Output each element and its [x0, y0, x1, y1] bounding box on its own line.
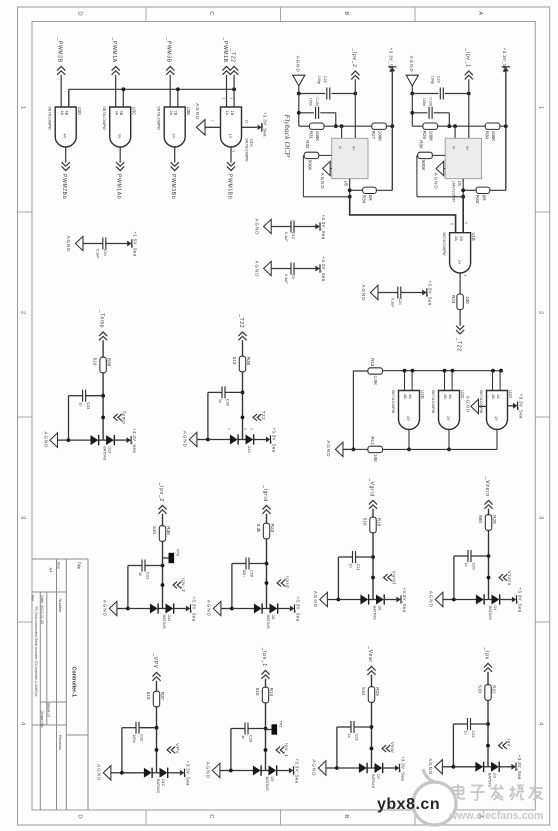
capacitor C126 — [299, 97, 336, 119]
svg-text:Ipv: Ipv — [507, 739, 512, 747]
title block text Sheet of — [47, 703, 51, 718]
svg-text:U2C: U2C — [460, 390, 465, 398]
wire R37 to clamp node — [155, 707, 159, 773]
svg-text:1: 1 — [221, 97, 225, 99]
svg-text:B: B — [343, 814, 349, 818]
svg-text:BAT54S: BAT54S — [372, 606, 377, 621]
resistor R24 — [451, 294, 470, 310]
svg-text:PWM1Bb: PWM1Bb — [227, 174, 233, 199]
svg-text:2: 2 — [20, 311, 26, 314]
ground AGND — [66, 236, 83, 253]
net label _Ipv — [484, 647, 493, 672]
svg-text:_Vzero: _Vzero — [484, 476, 490, 497]
wire AGND branch down — [410, 94, 414, 127]
svg-text:Flyback OCP: Flyback OCP — [283, 114, 292, 158]
net label PWM2Bb — [61, 162, 70, 199]
power +3.3V_Sea — [315, 257, 325, 282]
wire D7 to +3.3V_Sea — [382, 767, 395, 769]
title block — [32, 559, 88, 810]
power +3.3V_Sea — [396, 588, 406, 613]
ground AGND top — [293, 56, 305, 86]
svg-text:BAT54S: BAT54S — [156, 779, 161, 794]
capacitor C30 — [208, 386, 243, 406]
capacitor C24 — [391, 287, 403, 309]
wire bus to gate U2C inputs — [445, 371, 453, 391]
svg-text:SN74LC08PW: SN74LC08PW — [157, 106, 161, 130]
svg-text:_Ipv_2: _Ipv_2 — [351, 47, 357, 67]
svg-text:+3.3V_Sea: +3.3V_Sea — [295, 597, 300, 622]
wire gate U3B input B to enable bus — [177, 89, 179, 107]
svg-text:100n: 100n — [308, 98, 312, 106]
net label Vgrid — [371, 571, 397, 585]
pin 1 — [221, 97, 225, 99]
wire C12 to +3.3V_Sea — [294, 226, 315, 228]
svg-text:D4: D4 — [493, 606, 498, 612]
wire C32 to ground rail — [121, 728, 123, 773]
svg-text:100K: 100K — [378, 131, 383, 142]
watermark chinese logo text — [453, 784, 544, 800]
svg-text:1n: 1n — [218, 399, 223, 403]
svg-text:C26: C26 — [354, 734, 359, 741]
svg-text:R28: R28 — [492, 515, 497, 524]
watermark swirl logo — [413, 769, 456, 825]
svg-text:_Vear: _Vear — [367, 645, 373, 663]
svg-text:AGND: AGND — [206, 762, 211, 779]
net label PWM1Bb — [227, 162, 236, 199]
svg-text:AGND: AGND — [254, 219, 259, 236]
wire gate U2D output to rail — [408, 430, 410, 450]
wire _PWM1A to gate U3C input A — [115, 75, 117, 107]
svg-text:2: 2 — [537, 311, 543, 314]
svg-text:+3.3V_Sea: +3.3V_Sea — [517, 755, 522, 780]
svg-text:510: 510 — [232, 357, 237, 365]
svg-text:V+: V+ — [352, 146, 356, 152]
ground AGND comparator — [320, 161, 332, 189]
resistor R14 — [255, 687, 274, 703]
wire R31 to comparator V- — [299, 124, 344, 138]
title block text Revision — [58, 735, 63, 750]
resistor R30 — [484, 123, 500, 141]
svg-text:Ipv_1: Ipv_1 — [284, 743, 289, 757]
capacitor C26 — [337, 721, 372, 741]
svg-text:1Y: 1Y — [494, 416, 499, 421]
svg-text:SN74LC08PW: SN74LC08PW — [431, 390, 435, 414]
svg-text:VPV: VPV — [175, 743, 180, 754]
svg-text:510: 510 — [477, 685, 482, 693]
svg-text:100K: 100K — [491, 131, 496, 142]
wire D3 to +3.3V_Sea — [498, 766, 511, 768]
svg-text:AGND: AGND — [66, 236, 71, 253]
svg-text:0R: 0R — [368, 195, 373, 202]
wire output to R33 — [463, 189, 506, 191]
svg-text:3Y: 3Y — [446, 416, 451, 421]
svg-text:R36: R36 — [419, 140, 424, 149]
svg-text:U1A: U1A — [249, 139, 254, 147]
wire _Ipv_1 to R14 — [265, 679, 267, 687]
net label PWM1Ab — [116, 162, 125, 199]
svg-text:C: C — [208, 11, 214, 16]
svg-text:_T22: _T22 — [230, 48, 236, 63]
wire D11 to +3.3V_Sea — [173, 608, 186, 610]
enable bus wire T22 — [69, 87, 236, 107]
svg-text:PWM1Ab: PWM1Ab — [116, 174, 122, 199]
wire C23 to input node — [445, 92, 471, 96]
svg-text:Controller-1: Controller-1 — [71, 667, 77, 698]
svg-text:C30: C30 — [225, 399, 230, 407]
svg-text:BAT54S: BAT54S — [266, 615, 271, 630]
svg-text:_Igrid: _Igrid — [262, 484, 268, 502]
wire input node to comparator V+ — [468, 94, 470, 139]
pin 6 — [463, 275, 467, 277]
svg-text:4: 4 — [20, 722, 26, 726]
wire feedback R36 — [417, 155, 463, 196]
svg-text:A4: A4 — [49, 568, 54, 574]
svg-text:R36: R36 — [166, 526, 171, 535]
svg-text:C120: C120 — [428, 97, 432, 106]
svg-text:SN74LC08PW: SN74LC08PW — [391, 390, 395, 414]
resistor R37 — [146, 691, 165, 707]
power +3.3V_Sea — [186, 597, 196, 622]
svg-text:C126: C126 — [315, 97, 319, 106]
svg-text:Number: Number — [58, 599, 63, 614]
title block text Drawn By — [40, 711, 44, 729]
svg-text:3A: 3A — [448, 394, 453, 399]
svg-text:2Y: 2Y — [172, 134, 177, 139]
net label _Ipv_2 — [351, 47, 359, 93]
svg-text:D12: D12 — [161, 779, 166, 786]
svg-text:100n: 100n — [132, 734, 137, 743]
ground AGND — [207, 600, 234, 617]
net label Vear — [370, 742, 396, 754]
net label _Temp — [99, 309, 108, 341]
svg-text:100: 100 — [465, 296, 470, 304]
net label _PWM2B — [57, 36, 66, 74]
svg-text:_Ipv_1: _Ipv_1 — [261, 647, 267, 667]
svg-text:7: 7 — [210, 120, 214, 122]
svg-text:C34: C34 — [103, 249, 108, 257]
svg-text:_VPV: _VPV — [152, 652, 158, 669]
power +3.3V_Sea — [289, 759, 299, 784]
watermark ybx8.cn — [377, 796, 440, 813]
svg-text:4A: 4A — [60, 110, 65, 115]
svg-text:1A: 1A — [496, 394, 501, 399]
net label T22 — [241, 411, 267, 421]
pin 14 power +3.3V_Sea of U2A — [508, 394, 524, 419]
svg-text:B: B — [343, 11, 349, 15]
ground AGND pin 7 of U1A — [195, 103, 221, 135]
svg-text:R35: R35 — [246, 357, 251, 366]
resistor R22 — [477, 685, 496, 701]
title block text Date — [40, 595, 44, 624]
wire D10 to +3.3V_Sea — [253, 439, 266, 441]
wire ground rail to D9 — [231, 770, 254, 772]
svg-text:U3D: U3D — [77, 107, 82, 115]
svg-text:0R: 0R — [481, 195, 486, 202]
svg-text:5: 5 — [450, 223, 454, 225]
svg-text:AGND: AGND — [195, 103, 200, 120]
svg-text:C22: C22 — [471, 731, 476, 738]
svg-text:R34: R34 — [361, 195, 366, 204]
wire output to R34 — [350, 189, 393, 191]
svg-text:2A: 2A — [169, 110, 174, 115]
net label _PWM3B — [166, 36, 175, 74]
AND gate U1B — [442, 232, 476, 273]
svg-text:2B: 2B — [459, 236, 464, 241]
capacitor C12 — [284, 221, 296, 243]
wire R38 to clamp node — [101, 373, 105, 440]
wire gate U3C output — [119, 147, 121, 163]
svg-text:510: 510 — [361, 687, 366, 695]
diode D6 — [360, 594, 384, 620]
watermark elecfans url — [448, 810, 543, 822]
wire comparator output — [348, 179, 352, 199]
ground AGND — [361, 285, 378, 302]
svg-text:C25: C25 — [323, 76, 327, 83]
svg-text:C33: C33 — [86, 402, 91, 409]
svg-text:_Ipv_2: _Ipv_2 — [158, 482, 164, 502]
svg-text:2: 2 — [250, 428, 254, 430]
ground AGND — [254, 261, 271, 278]
wire C30 to ground rail — [207, 392, 209, 439]
svg-text:C: C — [208, 814, 214, 819]
wire C29 to ground rail — [230, 729, 232, 771]
svg-text:1n: 1n — [464, 731, 469, 735]
svg-text:Vear: Vear — [390, 742, 395, 754]
svg-text:R24: R24 — [451, 295, 456, 304]
svg-text:0.1uF: 0.1uF — [284, 232, 289, 243]
resistor R36 feedback — [418, 140, 433, 170]
wire _Vgrid to R18 — [372, 509, 374, 517]
wire R23 to clamp node — [265, 539, 269, 609]
wire _Ipv to R22 — [487, 672, 489, 685]
svg-text:_T22: _T22 — [456, 337, 462, 352]
svg-text:D10: D10 — [247, 446, 252, 454]
svg-text:0.1uF: 0.1uF — [96, 249, 101, 260]
svg-text:D: D — [77, 814, 83, 818]
power +3.3V_Sea rail — [502, 48, 510, 191]
svg-text:D3: D3 — [493, 773, 498, 778]
wire ground rail to D6 — [338, 599, 361, 601]
svg-text:U3C: U3C — [131, 107, 136, 115]
svg-text:_PWM1B: _PWM1B — [222, 36, 228, 62]
ground AGND — [312, 759, 339, 776]
title block text Controller-1 — [71, 667, 77, 698]
svg-text:6: 6 — [463, 275, 467, 277]
AND gate U2A — [479, 390, 513, 430]
net label _Ipv_1 — [261, 647, 270, 679]
svg-text:AGND: AGND — [313, 591, 318, 608]
diode D11 — [150, 603, 174, 629]
AND gate U1A — [221, 107, 255, 162]
svg-text:1Y: 1Y — [228, 134, 233, 139]
AND gate U2C — [431, 390, 465, 430]
wire R36 to clamp node — [161, 541, 165, 608]
net label _Igrid — [262, 484, 271, 514]
svg-text:U1B: U1B — [471, 233, 476, 241]
svg-text:2A: 2A — [454, 236, 459, 241]
diode D7 — [359, 763, 383, 789]
resistor R32 feedback — [304, 140, 319, 170]
svg-text:680: 680 — [478, 515, 483, 523]
svg-text:+3.3V_Sea: +3.3V_Sea — [132, 428, 137, 453]
wire C26 to ground rail — [336, 727, 338, 768]
svg-text:C12: C12 — [291, 232, 296, 239]
diode D8 — [254, 603, 278, 629]
wire C9 to +3.3V_Sea — [294, 268, 315, 270]
wire D9 to +3.3V_Sea — [276, 770, 289, 772]
wire U4 output route to gate U1B pin 4 — [462, 197, 464, 233]
capacitor C22 — [453, 718, 488, 738]
svg-text:2: 2 — [229, 97, 233, 99]
svg-text:SN74LC08PW: SN74LC08PW — [442, 232, 446, 256]
wire AGND to cap C23 — [410, 86, 438, 96]
svg-text:3B: 3B — [119, 110, 124, 115]
wire _T22 to gate U1A pin 2 — [233, 75, 235, 107]
resistor R28 — [478, 515, 497, 531]
svg-text:4B: 4B — [403, 394, 408, 399]
power +1.5V_Sea — [127, 232, 137, 257]
wire _Temp to R38 — [102, 340, 104, 357]
net label PWM3Bb — [170, 162, 179, 199]
ground AGND top — [406, 56, 418, 86]
svg-text:+3.3V_Sea: +3.3V_Sea — [402, 588, 407, 613]
svg-text:Igrid: Igrid — [285, 576, 290, 588]
svg-text:R38: R38 — [107, 358, 112, 367]
ground AGND — [97, 764, 124, 781]
svg-text:SN74LC08PW: SN74LC08PW — [48, 106, 52, 130]
wire C24 to +3.3V_Sea — [401, 292, 422, 294]
svg-text:2B: 2B — [174, 110, 179, 115]
svg-text:_Temp: _Temp — [99, 309, 105, 329]
net label VPV — [155, 743, 181, 754]
svg-text:AGND: AGND — [312, 759, 317, 776]
wire U5 output route to gate U1B pin 5 — [350, 197, 456, 233]
svg-text:100p: 100p — [317, 76, 321, 84]
test point TP6 — [163, 549, 181, 563]
wire ground rail to D10 — [208, 439, 231, 441]
svg-text:R18: R18 — [376, 518, 381, 527]
power +3.3V_Sea — [422, 281, 432, 306]
capacitor C120 — [412, 97, 449, 119]
resistor R18 — [362, 517, 381, 533]
comparator U4 — [445, 138, 481, 202]
svg-text:BAT54S: BAT54S — [488, 606, 493, 621]
AND gate U2D — [391, 390, 425, 430]
svg-text:R27: R27 — [371, 131, 376, 140]
svg-text:Sheet of: Sheet of — [47, 703, 51, 718]
svg-text:C28: C28 — [249, 570, 254, 577]
svg-text:BAT54S: BAT54S — [371, 774, 376, 789]
wire gate U1B output to R24 — [459, 273, 461, 294]
wire bus to gate U2D inputs — [405, 371, 413, 391]
net label Ipv_1 — [264, 743, 290, 757]
AND gate U3C — [102, 106, 136, 147]
power +3.3V_Sea — [266, 428, 276, 453]
svg-text:U2D: U2D — [420, 390, 425, 398]
svg-text:PWM3Bb: PWM3Bb — [170, 174, 176, 199]
net label _Ipv_2 — [158, 482, 167, 514]
svg-text:+3.3V_Sea: +3.3V_Sea — [262, 112, 267, 137]
svg-text:3: 3 — [232, 150, 236, 152]
ground AGND — [206, 762, 233, 779]
svg-text:Revision: Revision — [58, 735, 63, 750]
svg-text:0.1uF: 0.1uF — [284, 274, 289, 285]
wire C20 to ground rail — [453, 556, 455, 600]
resistor R34 pull-up — [361, 187, 376, 204]
svg-text:_T22: _T22 — [238, 313, 244, 328]
wire C120 to V- node — [447, 113, 451, 128]
svg-text:100K: 100K — [429, 131, 434, 142]
svg-text:AGND: AGND — [326, 440, 331, 457]
AND gate U3B — [157, 106, 191, 147]
svg-text:_Ipv: _Ipv — [484, 647, 490, 660]
capacitor C23 — [431, 76, 444, 100]
diode D10 — [230, 434, 254, 453]
wire _PWM3B to gate U3B input A — [169, 75, 171, 107]
svg-text:1B: 1B — [491, 394, 496, 399]
svg-text:Title: Title — [77, 562, 82, 570]
wire C31 to ground rail — [127, 566, 129, 609]
net label Igrid — [265, 576, 291, 588]
svg-text:4Y: 4Y — [63, 134, 68, 139]
diode D4 — [476, 594, 500, 620]
wire C22 to ground rail — [452, 724, 454, 767]
net label Vzero — [487, 571, 512, 586]
svg-text:AGND: AGND — [361, 285, 366, 302]
svg-text:AGND: AGND — [103, 600, 108, 617]
svg-text:82n: 82n — [242, 570, 247, 577]
svg-text:3B: 3B — [443, 394, 448, 399]
svg-text:R33: R33 — [475, 195, 480, 204]
svg-text:4Y: 4Y — [406, 416, 411, 421]
svg-text:Vgrid: Vgrid — [392, 571, 397, 585]
wire V- node to R27 to +3.3V rail — [342, 124, 395, 128]
svg-text:C24: C24 — [398, 298, 403, 306]
svg-text:ybx8.cn: ybx8.cn — [377, 796, 440, 813]
wire C25 to input node — [332, 92, 358, 96]
capacitor C9 — [284, 263, 296, 285]
wire D6 to +3.3V_Sea — [383, 599, 396, 601]
wire R25 to comparator V- — [412, 124, 457, 138]
svg-text:1A: 1A — [225, 110, 230, 115]
svg-text:R12: R12 — [370, 436, 375, 445]
svg-text:BAT54S: BAT54S — [162, 615, 167, 630]
svg-text:1n: 1n — [138, 572, 143, 576]
svg-text:R14: R14 — [269, 688, 274, 697]
svg-text:PV Grid-connected Solar Invert: PV Grid-connected Solar Inverter-C\Contr… — [34, 607, 38, 697]
pin numbers of D10 — [227, 428, 254, 430]
wire ground rail to D12 — [122, 772, 145, 774]
power +3.3V_Sea — [180, 761, 190, 786]
svg-text:510: 510 — [362, 518, 367, 526]
net label _T22 output — [456, 326, 465, 352]
resistor R29 — [361, 687, 380, 703]
resistor R33 pull-up — [475, 187, 490, 204]
ground AGND U2 bank — [326, 440, 353, 457]
ground AGND — [429, 591, 456, 608]
wire _Vzero to R28 — [488, 509, 490, 515]
title block text Title — [77, 562, 82, 570]
wire AGND to C9 — [271, 268, 291, 270]
svg-text:_PWM3B: _PWM3B — [166, 36, 172, 62]
resistor R13 — [368, 358, 383, 385]
svg-text:+1.5V_Sea: +1.5V_Sea — [133, 232, 138, 257]
svg-text:+3.3V_Sea: +3.3V_Sea — [428, 281, 433, 306]
svg-text:C29: C29 — [248, 735, 253, 742]
svg-text:U5: U5 — [344, 181, 349, 187]
svg-text:10K: 10K — [373, 454, 378, 462]
title block text Number — [58, 599, 63, 614]
